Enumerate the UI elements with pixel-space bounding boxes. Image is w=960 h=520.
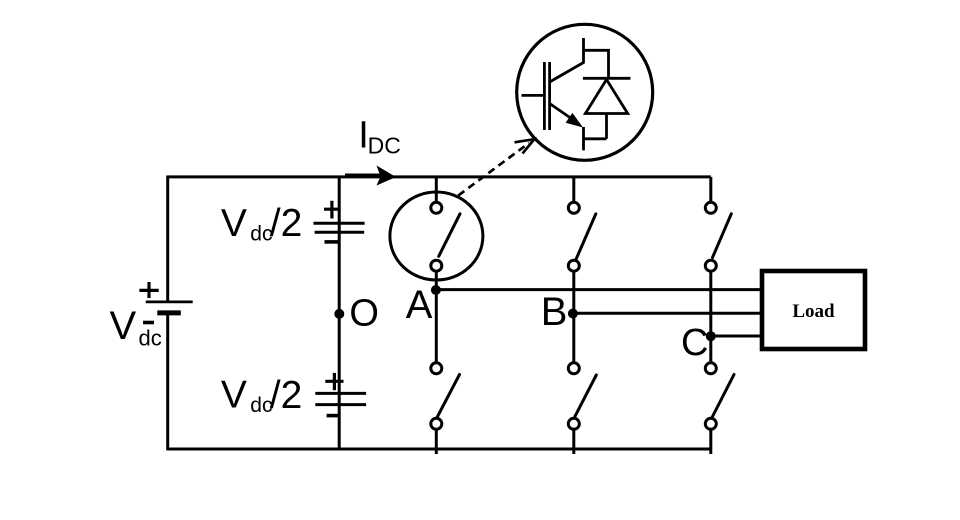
arrow I_DC (345, 166, 396, 186)
wire phase C (711, 335, 760, 338)
node A (431, 285, 441, 295)
detail circle (IGBT module) (517, 24, 653, 160)
node B (568, 309, 578, 319)
gate bar right (body) (548, 62, 551, 130)
svg-text:V: V (110, 304, 137, 348)
switch S4 (leg B lower) (568, 313, 596, 454)
wire top DC bus (168, 175, 711, 178)
wire capacitor leg (338, 176, 341, 451)
diode cathode bar (583, 77, 631, 80)
highlight circle around S1 (390, 192, 483, 280)
gate lead (522, 94, 545, 97)
svg-text:dc: dc (139, 326, 162, 351)
svg-text:V: V (221, 202, 247, 245)
svg-text:C: C (681, 322, 708, 364)
svg-text:Load: Load (792, 301, 835, 322)
svg-text:/2: /2 (270, 202, 303, 245)
diode triangle (585, 80, 627, 114)
wire left lower segment (166, 313, 169, 451)
IGBT Q inside detail circle (522, 38, 609, 150)
node C (706, 331, 716, 341)
collector diagonal (550, 63, 584, 83)
switch S2 (leg A lower) (431, 290, 460, 454)
diode anode lead (605, 114, 608, 139)
switch S1 (leg A upper) (431, 177, 460, 290)
svg-text:B: B (541, 290, 568, 334)
dashed arrow (458, 139, 534, 195)
collector jog to diode (584, 50, 609, 78)
emitter arrowhead (566, 113, 583, 128)
svg-text:/2: /2 (270, 374, 303, 417)
wire phase B (574, 312, 760, 315)
svg-text:DC: DC (368, 132, 401, 158)
gate bar left (543, 62, 546, 130)
switch S3 (leg B upper) (568, 177, 596, 313)
switch S6 (leg C lower) (705, 336, 734, 454)
emitter jog from diode (584, 137, 607, 140)
svg-text:V: V (221, 374, 247, 417)
node O (334, 309, 344, 319)
emitter diagonal (550, 104, 578, 124)
capacitor C1 (top, Vdc/2) (314, 201, 365, 242)
collector lead (582, 38, 585, 64)
svg-text:A: A (406, 283, 433, 327)
load box (762, 271, 865, 349)
diode D (antiparallel) (583, 78, 631, 139)
wire left upper segment (166, 176, 169, 302)
svg-text:O: O (349, 293, 379, 335)
battery V_dc (139, 282, 192, 323)
wire phase A (436, 288, 760, 291)
emitter lead (582, 127, 585, 150)
switch S5 (leg C upper) (705, 177, 731, 336)
wire bottom DC bus (168, 448, 711, 451)
capacitor C2 (bottom, Vdc/2) (315, 373, 366, 416)
